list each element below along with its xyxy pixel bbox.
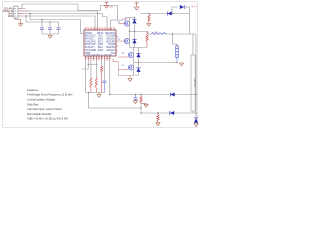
ground under D9 — [194, 124, 198, 127]
right vertical from diodes — [189, 7, 191, 34]
ground right of inductor — [181, 62, 183, 65]
inductor L2 feed — [173, 34, 178, 46]
wire pin4 pink stub — [18, 15, 22, 17]
sheet background — [0, 0, 200, 131]
bottom rail — [141, 112, 196, 114]
ground under RC — [98, 93, 100, 95]
wire net pin3 staircase — [18, 14, 107, 31]
ground return wire — [89, 93, 141, 109]
wire pin3 pink stub — [18, 13, 24, 15]
svg-text:BAT+: BAT+ — [192, 6, 198, 9]
red gate wire Q2 — [116, 40, 124, 42]
U1 pin names — [85, 32, 116, 55]
capacitor C2 — [48, 27, 52, 29]
power flag VIN — [106, 2, 108, 5]
wire stub cap C2 — [49, 22, 51, 28]
wire junctions — [134, 17, 135, 18]
bridge lower rail — [130, 47, 148, 49]
resistor R7 — [157, 113, 159, 115]
Q4 channel — [133, 63, 135, 76]
U1 top pin numbers — [84, 28, 116, 30]
wire net pin4 — [18, 16, 95, 30]
svg-text:Full-Bridge Fixed Frequency (2: Full-Bridge Fixed Frequency (2.5) kHz — [27, 93, 73, 97]
wire branch pin4 caps — [26, 16, 59, 28]
U1 bottom pin stubs — [86, 56, 110, 61]
wires below U1 — [85, 61, 87, 93]
diode D1 left — [166, 12, 168, 16]
svg-text:CSP CSN FBO VC SRV GD: CSP CSN FBO VC SRV GD — [86, 54, 113, 56]
battery bottom stub — [192, 111, 194, 113]
ground under caps — [49, 34, 51, 36]
notes text block — [27, 88, 73, 121]
connector J1 pin labels — [3, 7, 14, 17]
resistor R4 top right — [148, 14, 150, 16]
red gate wire Q4 — [117, 62, 119, 76]
wire net pin2 — [18, 11, 98, 30]
U1 top pin stubs — [86, 29, 115, 30]
transistor Q1 — [124, 21, 129, 26]
wire pin1 pink stub — [18, 8, 26, 10]
resistor R3 inline — [101, 66, 103, 73]
wire stub cap C1 — [41, 20, 43, 28]
U1 right pin stubs — [116, 36, 119, 38]
svg-text:V(B) = (0.4k) = (0.2k) (p 4.5+: V(B) = (0.4k) = (0.2k) (p 4.5+5.6V) — [27, 117, 68, 121]
resistor R2 — [95, 78, 97, 88]
inductor L2 — [176, 46, 178, 48]
svg-text:VBAT: VBAT — [153, 31, 159, 34]
ground branch R6 — [141, 103, 146, 106]
right vertical rail — [195, 34, 197, 113]
inductor L1 horizontal — [152, 33, 167, 35]
capacitor C5 — [135, 95, 137, 98]
capacitor C3 — [57, 27, 61, 29]
resistor R5 mid right — [146, 32, 148, 36]
svg-text:Lab-fault Open Lamp Protect.: Lab-fault Open Lamp Protect. — [27, 107, 63, 111]
ground under R7 — [157, 121, 159, 124]
capacitor C4 — [102, 80, 106, 82]
ground symbol top middle — [135, 2, 139, 7]
ground under J1 — [16, 18, 21, 24]
ground under bridge — [129, 76, 131, 79]
resistor R1 — [90, 78, 92, 88]
mid bottom rail — [110, 94, 196, 96]
junction dot — [157, 112, 158, 113]
svg-text:Features:: Features: — [27, 88, 39, 92]
U1 bottom pin numbers — [85, 58, 112, 60]
capacitor C1 — [40, 27, 44, 29]
red gate wire Q3 — [113, 59, 118, 62]
diode D8 left — [169, 111, 171, 115]
diode D9 up — [195, 113, 197, 118]
battery top stub — [192, 34, 194, 55]
svg-text:Bulk Ram: Bulk Ram — [27, 102, 39, 106]
diode D5 — [138, 48, 140, 63]
diode D2 right — [183, 5, 185, 9]
wire stub U1 top right — [111, 19, 118, 21]
red sense rail — [118, 75, 138, 77]
top right upper branch — [172, 7, 178, 14]
op-amp U1 box — [84, 30, 116, 56]
svg-text:GND: GND — [8, 16, 13, 18]
top right rail — [140, 13, 190, 15]
Q3 channel — [133, 48, 135, 63]
connector J1 — [14, 6, 19, 18]
svg-text:VOUT: VOUT — [122, 18, 129, 20]
FET top rail — [126, 18, 135, 21]
wire branch pin3 caps rail — [30, 14, 84, 34]
transistor Q3 — [128, 52, 133, 57]
diode D6 — [138, 63, 140, 76]
caps bottom rail — [42, 33, 59, 35]
diode D3 — [134, 18, 136, 32]
wire pin2 pink stub — [18, 10, 28, 12]
ground under C5 — [133, 101, 137, 104]
Q1 channel — [129, 18, 131, 32]
SW2 wire — [134, 62, 178, 64]
resistor R6 — [140, 95, 142, 97]
SW1 rail — [130, 32, 152, 35]
transistor Q4 — [128, 65, 133, 70]
svg-text:Limited Ignition Voltage: Limited Ignition Voltage — [27, 98, 55, 102]
red gate wire Q1 — [118, 23, 124, 25]
svg-text:Burst Mode Standby: Burst Mode Standby — [27, 112, 52, 116]
battery box — [191, 55, 195, 111]
svg-text:SW2: SW2 — [98, 49, 104, 52]
diode D4 — [134, 32, 136, 48]
RC bottom rail — [86, 92, 105, 94]
transistor Q2 — [124, 38, 129, 43]
wire net VIN pin1 — [18, 4, 126, 20]
border frame — [3, 2, 198, 128]
Q2 channel — [129, 32, 131, 48]
ground under R4 — [147, 23, 151, 26]
diode D7 left — [169, 93, 171, 97]
